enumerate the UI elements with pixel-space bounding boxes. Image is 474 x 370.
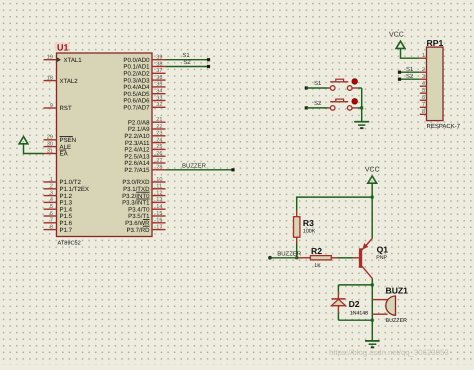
label PNP [376, 255, 387, 261]
pin 24 P2.3/A11 (U1 right) [125, 137, 166, 146]
pin 2 P1.1/T2EX (U1 left) [44, 184, 89, 193]
svg-text:37: 37 [156, 68, 162, 74]
svg-text:4: 4 [50, 197, 53, 203]
pin 37 P0.2/AD2 (U1 right) [123, 68, 165, 77]
svg-text:35: 35 [156, 82, 162, 88]
svg-text:Q1: Q1 [377, 245, 389, 255]
svg-text:30: 30 [47, 141, 53, 147]
pin 25 P2.4/A12 (U1 right) [124, 144, 165, 153]
chip U1 body [55, 43, 152, 237]
svg-text:8: 8 [50, 224, 53, 230]
svg-text:1K: 1K [314, 263, 321, 269]
pin 21 P2.0/A8 (U1 right) [128, 117, 166, 126]
pin 5 (RP1) [420, 88, 427, 94]
ground (switches) [354, 122, 369, 129]
svg-text:9: 9 [50, 103, 53, 109]
pin 6 (RP1) [420, 95, 427, 101]
svg-text:31: 31 [47, 148, 53, 154]
pin 8 (RP1) [420, 109, 427, 115]
pin 13 P3.3/INT1 (U1 right) [122, 197, 165, 206]
pin 14 P3.4/T0 (U1 right) [128, 204, 165, 213]
pin 2 (RP1) [420, 67, 427, 73]
pin 36 P0.3/AD3 (U1 right) [123, 75, 165, 84]
svg-text:29: 29 [47, 135, 53, 141]
svg-text:BUZZER: BUZZER [182, 162, 207, 169]
svg-text:RESPACK-7: RESPACK-7 [427, 123, 461, 130]
svg-text:5: 5 [50, 204, 53, 210]
svg-text:6: 6 [422, 95, 425, 101]
wire R3 bottom to BUZZER node [296, 243, 298, 258]
pin 33 P0.6/AD6 (U1 right) [123, 95, 165, 104]
svg-text:11: 11 [156, 184, 162, 190]
label R2 [311, 246, 322, 256]
wire from switch S2 to ground rail [357, 107, 362, 109]
transistor Q1 [353, 238, 373, 278]
pin 7 (RP1) [420, 102, 427, 108]
svg-text:3: 3 [422, 74, 425, 80]
wire collector node to D2 top [338, 285, 372, 292]
svg-text:1N4148: 1N4148 [350, 310, 368, 316]
svg-text:U1: U1 [57, 43, 69, 53]
label 100K [303, 228, 316, 234]
svg-text:5: 5 [422, 88, 425, 94]
pin 4 P1.3 (U1 left) [44, 197, 73, 206]
svg-text:3: 3 [50, 190, 53, 196]
wire to switch S2 [305, 100, 328, 109]
svg-text:17: 17 [156, 224, 162, 230]
label Q1 [377, 245, 389, 255]
pin 9 RST (U1 left) [44, 103, 72, 112]
diode D2 [331, 292, 345, 312]
pin 8 P1.7 (U1 left) [44, 224, 73, 233]
svg-text:XTAL1: XTAL1 [64, 57, 83, 64]
pin 6 P1.5 (U1 left) [44, 211, 73, 220]
label RESPACK-7 [427, 123, 461, 130]
pin 31 EA (U1 left) [44, 148, 69, 157]
svg-text:XTAL2: XTAL2 [60, 78, 79, 85]
wire net BUZZER (driver input) [268, 251, 302, 260]
svg-text:S2: S2 [183, 59, 191, 66]
svg-text:S2: S2 [406, 73, 414, 80]
svg-text:PNP: PNP [376, 255, 387, 261]
svg-text:RP1: RP1 [427, 38, 444, 48]
label RP1 [427, 38, 444, 48]
svg-text:BUZ1: BUZ1 [386, 286, 409, 296]
svg-text:7: 7 [422, 102, 425, 108]
buzzer BUZ1 [372, 296, 395, 315]
pin 12 P3.2/INT0 (U1 right) [122, 190, 165, 199]
label R3 [303, 218, 314, 228]
wire net S1 from pin 39 [166, 52, 211, 61]
svg-text:36: 36 [156, 75, 162, 81]
svg-text:26: 26 [156, 151, 162, 157]
svg-text:https://blog.csdn.net/qq_30623: https://blog.csdn.net/qq_30623053 [329, 348, 449, 357]
push button S1 [328, 79, 358, 91]
svg-text:S1: S1 [406, 66, 414, 73]
wire net BUZZER from pin 28 [166, 162, 235, 171]
label 1K [314, 263, 321, 269]
svg-text:16: 16 [156, 218, 162, 224]
pin 34 P0.5/AD5 (U1 right) [123, 89, 165, 98]
wire VCC rail to R3 top [297, 196, 374, 199]
label BUZ1 [386, 286, 409, 296]
wire R2 to Q1 base [338, 257, 353, 259]
svg-text:S1: S1 [314, 80, 322, 87]
label U1 [57, 43, 69, 53]
resistor pack RP1 body [427, 47, 444, 121]
resistor R3 [294, 211, 300, 243]
wire from switch S1 to ground rail [357, 87, 362, 89]
svg-text:25: 25 [156, 144, 162, 150]
svg-text:18: 18 [47, 75, 53, 81]
svg-text:23: 23 [156, 131, 162, 137]
svg-text:1: 1 [422, 53, 425, 59]
pin 28 P2.7/A15 (U1 right) [124, 165, 165, 174]
wire switch ground rail [360, 88, 363, 121]
wire R3 top segment [296, 197, 298, 211]
pin 39 P0.0/AD0 (U1 right) [123, 55, 165, 64]
svg-text:27: 27 [156, 158, 162, 164]
svg-text:19: 19 [47, 55, 53, 61]
pin 3 P1.2 (U1 left) [44, 190, 73, 199]
svg-text:4: 4 [422, 81, 425, 87]
svg-text:12: 12 [156, 190, 162, 196]
pin 35 P0.4/AD4 (U1 right) [123, 82, 165, 91]
svg-text:8: 8 [422, 109, 425, 115]
svg-text:22: 22 [156, 124, 162, 130]
svg-text:R3: R3 [303, 218, 314, 228]
pin 30 ALE (U1 left) [44, 141, 72, 150]
svg-text:AT89C52: AT89C52 [58, 241, 81, 247]
label BUZZER (value) [386, 318, 408, 324]
svg-text:33: 33 [156, 95, 162, 101]
pin 22 P2.1/A9 (U1 right) [128, 124, 166, 133]
power VCC (driver) [365, 166, 380, 197]
pin 1 P1.0/T2 (U1 left) [44, 177, 82, 186]
wire Q1 collector rail [371, 278, 374, 340]
resistor R2 [297, 256, 338, 260]
pin 3 (RP1) [420, 74, 427, 80]
power VCC at EA pin [19, 137, 43, 155]
pin 18 XTAL2 (U1 left) [44, 75, 79, 84]
power VCC at RP1 pin 1 [389, 32, 420, 59]
pin 32 P0.7/AD7 (U1 right) [123, 102, 165, 111]
label AT89C52 [58, 241, 81, 247]
ground (driver) [365, 341, 380, 348]
pin 23 P2.2/A10 (U1 right) [124, 131, 165, 140]
svg-text:2: 2 [50, 184, 53, 190]
svg-text:28: 28 [156, 165, 162, 171]
wire VCC to Q1 emitter [371, 197, 373, 238]
wire net S2 from pin 38 [166, 59, 211, 68]
svg-text:24: 24 [156, 137, 162, 143]
svg-text:6: 6 [50, 211, 53, 217]
watermark [329, 348, 449, 357]
svg-text:38: 38 [156, 61, 162, 67]
svg-text:P0.7/AD7: P0.7/AD7 [123, 105, 150, 112]
svg-text:BUZZER: BUZZER [386, 318, 408, 324]
pin 26 P2.5/A13 (U1 right) [124, 151, 165, 160]
svg-text:R2: R2 [311, 246, 322, 256]
wire net S2 to RP1 pin 3 [398, 73, 420, 81]
svg-text:2: 2 [422, 67, 425, 73]
wire net S1 to RP1 pin 2 [398, 66, 420, 74]
svg-text:10: 10 [156, 177, 162, 183]
pin 19 XTAL1 (U1 left) [44, 55, 83, 64]
svg-text:RST: RST [60, 105, 72, 112]
pin 29 PSEN (U1 left) [44, 135, 77, 144]
svg-text:34: 34 [156, 89, 162, 95]
svg-text:13: 13 [156, 197, 162, 203]
svg-text:S1: S1 [182, 52, 190, 59]
svg-text:VCC: VCC [389, 32, 404, 39]
label D2 [349, 299, 360, 309]
svg-text:15: 15 [156, 211, 162, 217]
wire to switch S1 [305, 80, 328, 89]
pin 15 P3.5/T1 (U1 right) [128, 211, 165, 220]
pin 7 P1.6 (U1 left) [44, 218, 73, 227]
wire D2 bottom to ground rail [338, 312, 372, 320]
pin 17 P3.7/RD (U1 right) [126, 224, 165, 233]
svg-text:EA: EA [60, 151, 69, 158]
pin 27 P2.6/A14 (U1 right) [124, 158, 165, 167]
pin 11 P3.1/TXD (U1 right) [123, 184, 165, 193]
pin 16 P3.6/WR (U1 right) [125, 218, 165, 227]
push button S2 [328, 99, 358, 111]
svg-text:P2.7/A15: P2.7/A15 [124, 167, 150, 174]
svg-text:21: 21 [156, 117, 162, 123]
svg-text:39: 39 [156, 55, 162, 61]
svg-text:P1.7: P1.7 [60, 227, 73, 234]
pin 4 (RP1) [420, 81, 427, 87]
pin 10 P3.0/RXD (U1 right) [122, 177, 165, 186]
pin 1 (RP1) [420, 53, 427, 59]
svg-text:14: 14 [156, 204, 162, 210]
svg-text:D2: D2 [349, 299, 360, 309]
svg-text:32: 32 [156, 102, 162, 108]
label 1N4148 [350, 310, 368, 316]
svg-text:1: 1 [50, 177, 53, 183]
svg-text:7: 7 [50, 218, 53, 224]
pin 5 P1.4 (U1 left) [44, 204, 73, 213]
svg-text:100K: 100K [303, 228, 316, 234]
svg-text:VCC: VCC [365, 166, 380, 173]
pin 38 P0.1/AD1 (U1 right) [123, 61, 165, 70]
svg-text:S2: S2 [314, 100, 322, 107]
svg-text:P3.7/RD: P3.7/RD [126, 227, 150, 234]
